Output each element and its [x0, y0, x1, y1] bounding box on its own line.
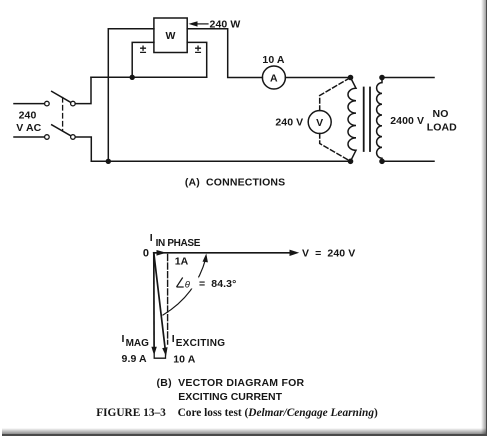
svg-text:MAG: MAG	[126, 338, 150, 349]
transformer core line right	[369, 88, 371, 152]
wattmeter potential-coil right lead	[187, 42, 207, 77]
switch upper blade	[52, 91, 71, 102]
svg-text:V AC: V AC	[16, 122, 41, 134]
svg-text:V: V	[316, 117, 323, 129]
wattmeter current-coil right wire	[187, 29, 262, 78]
page drop shadow right edge	[481, 0, 487, 436]
wire: ammeter to transformer primary	[285, 77, 350, 79]
switch upper right contact circle	[71, 101, 76, 106]
ammeter A1 circle	[262, 66, 285, 89]
svg-text:IN PHASE: IN PHASE	[156, 238, 201, 249]
switch lower right contact circle	[71, 135, 76, 140]
svg-text:(A) CONNECTIONS: (A) CONNECTIONS	[185, 177, 285, 189]
V axis vector	[154, 252, 291, 254]
source terminal upper circle	[45, 101, 50, 106]
wattmeter potential-coil left lead	[132, 42, 154, 77]
transformer core line left	[363, 88, 365, 152]
junction dot on top bus	[130, 75, 135, 80]
svg-text:A: A	[270, 73, 278, 85]
wire: bottom bus	[91, 160, 350, 162]
page border right line	[486, 0, 488, 436]
voltmeter dashed lead upper	[320, 78, 351, 111]
wire: secondary top open lead	[382, 77, 434, 79]
svg-text:I: I	[122, 333, 125, 345]
svg-text:±: ±	[195, 42, 202, 56]
svg-text:= 84.3°: = 84.3°	[199, 278, 236, 290]
wire: switch upper to top bus	[75, 77, 91, 103]
svg-text:NO: NO	[433, 108, 449, 120]
svg-text:2400 V: 2400 V	[390, 115, 424, 127]
svg-text:W: W	[165, 30, 175, 42]
svg-text:240 V: 240 V	[275, 117, 303, 129]
svg-text:240 W: 240 W	[210, 19, 241, 31]
svg-text:9.9 A: 9.9 A	[122, 353, 148, 365]
wire: top bus	[91, 76, 207, 78]
wattmeter current-coil left wire	[108, 29, 154, 162]
svg-text:10 A: 10 A	[262, 54, 285, 66]
voltmeter dashed lead lower	[320, 134, 351, 162]
240 W pointer arrow	[194, 23, 208, 25]
wattmeter U1 box	[154, 18, 187, 53]
switch gang link (dashed)	[62, 98, 64, 131]
svg-text:FIGURE 13–3: FIGURE 13–3	[96, 407, 166, 419]
svg-text:±: ±	[140, 42, 147, 56]
svg-text:EXCITING: EXCITING	[176, 338, 226, 349]
svg-text:10 A: 10 A	[173, 353, 196, 365]
source terminal upper lead	[14, 103, 44, 105]
I exciting vector	[154, 253, 166, 350]
svg-text:V = 240 V: V = 240 V	[302, 248, 355, 260]
svg-text:240: 240	[19, 110, 37, 122]
svg-text:1A: 1A	[175, 256, 189, 268]
voltmeter V1 circle	[308, 111, 331, 134]
I in-phase arrow (1A)	[154, 252, 160, 254]
transformer primary bottom dot	[348, 159, 354, 165]
junction dot on bottom bus	[106, 159, 111, 164]
240 W arrowhead	[189, 21, 198, 26]
I mag arrowhead	[151, 347, 156, 356]
angle arc arrow	[163, 258, 206, 315]
svg-text:θ: θ	[185, 279, 191, 290]
transformer T1 primary winding	[348, 78, 356, 162]
wire: switch lower to bottom bus	[75, 137, 91, 161]
source terminal lower circle	[45, 135, 50, 140]
transformer secondary bottom dot	[379, 159, 385, 165]
svg-text:LOAD: LOAD	[427, 121, 457, 133]
I exciting arrowhead	[162, 347, 167, 356]
transformer T1 secondary winding	[377, 78, 382, 162]
page border bottom line	[2, 434, 487, 436]
svg-text:I: I	[150, 232, 153, 244]
I mag vector	[153, 253, 155, 349]
svg-text:0: 0	[143, 248, 149, 260]
page drop shadow bottom edge	[2, 428, 486, 434]
svg-text:Core loss test (Delmar/Cengage: Core loss test (Delmar/Cengage Learning)	[178, 407, 378, 419]
transformer primary top dot	[348, 75, 354, 81]
label angle theta = 84.3 deg	[177, 278, 184, 288]
transformer secondary top dot	[379, 75, 385, 81]
wire: secondary bottom open lead	[382, 160, 434, 162]
tip bracket between vector heads	[154, 353, 165, 358]
V axis arrowhead	[290, 250, 300, 256]
angle arc arrowhead	[203, 254, 208, 263]
svg-text:(B) VECTOR DIAGRAM FOR: (B) VECTOR DIAGRAM FOR	[157, 377, 305, 389]
svg-text:I: I	[172, 333, 175, 345]
svg-text:EXCITING CURRENT: EXCITING CURRENT	[178, 391, 282, 403]
switch lower blade	[52, 125, 71, 136]
dashed projection line	[167, 255, 169, 345]
source terminal lower lead	[14, 136, 44, 138]
white gap where arc crosses text line	[191, 277, 199, 289]
